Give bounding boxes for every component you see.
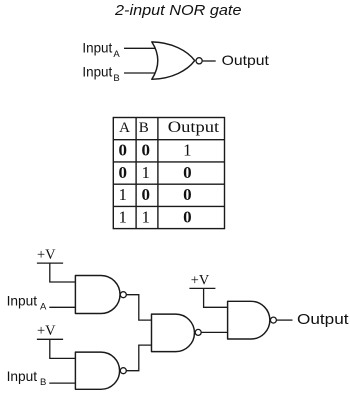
truth table row 4: 1 1 0	[118, 207, 191, 226]
truth table row 1: 0 0 1	[118, 140, 191, 159]
svg-text:Output: Output	[168, 119, 220, 136]
svg-text:B: B	[139, 120, 149, 136]
NAND gate U2 output bubble	[120, 292, 126, 298]
NAND gate U4 body	[152, 314, 195, 352]
NAND gate U5 output bubble	[270, 317, 276, 323]
label InputA (bottom circuit)	[7, 293, 47, 313]
NOR gate U1 body	[152, 42, 195, 79]
svg-text:0: 0	[183, 185, 192, 204]
svg-text:B: B	[113, 73, 119, 84]
power +V bar 2	[37, 338, 63, 340]
wire gate U4 output to gate U5 bottom input	[201, 331, 227, 333]
wire +V2 to gate2 top input	[50, 339, 76, 358]
svg-text:A: A	[119, 120, 130, 136]
power +V bar 1	[37, 262, 63, 264]
svg-text:0: 0	[141, 140, 150, 159]
truth table row 2: 0 1 0	[118, 163, 191, 182]
svg-text:+V: +V	[37, 247, 56, 263]
NAND gate U5 body	[228, 301, 270, 339]
svg-text:0: 0	[141, 185, 150, 204]
wire NOR output	[203, 60, 216, 62]
svg-text:1: 1	[141, 163, 150, 182]
svg-text:Output: Output	[297, 312, 349, 328]
wire InputB to NOR gate	[124, 72, 156, 74]
truth table header A B Output	[119, 119, 220, 136]
label InputB (top NOR gate)	[82, 63, 119, 84]
NAND gate U3 body	[75, 352, 119, 389]
svg-text:1: 1	[183, 140, 192, 159]
wire InputA to gate1	[49, 306, 75, 308]
wire InputB to gate2	[49, 382, 75, 384]
truth table row 3: 1 0 0	[118, 185, 191, 204]
svg-text:1: 1	[141, 207, 150, 226]
svg-text:Input: Input	[7, 293, 38, 309]
wire +V3 to gate U5 top input	[204, 288, 228, 307]
NAND gate U4 output bubble	[195, 329, 201, 335]
svg-text:Input: Input	[7, 368, 38, 384]
svg-text:2-input NOR gate: 2-input NOR gate	[114, 3, 242, 19]
svg-text:A: A	[40, 302, 47, 313]
svg-text:Input: Input	[82, 40, 112, 56]
power +V bar 3	[189, 287, 215, 289]
NAND gate U2 body	[75, 276, 120, 314]
svg-text:+V: +V	[37, 323, 56, 339]
svg-text:0: 0	[118, 163, 127, 182]
svg-text:Output: Output	[222, 52, 269, 68]
wire +V1 to gate1 top input	[50, 263, 76, 282]
NAND gate U3 output bubble	[120, 368, 126, 374]
svg-text:+V: +V	[191, 273, 210, 289]
wire gate U5 output to Output label	[277, 319, 293, 321]
wire gate U3 output to gate U4 bottom input	[127, 345, 152, 371]
svg-text:0: 0	[118, 140, 127, 159]
svg-text:B: B	[40, 377, 46, 388]
svg-text:1: 1	[118, 207, 127, 226]
svg-text:0: 0	[183, 207, 192, 226]
NOR gate U1 output bubble	[196, 58, 202, 64]
svg-text:A: A	[113, 49, 120, 60]
label InputB (bottom circuit)	[7, 368, 47, 388]
wire gate U2 output to gate U4 top input	[127, 295, 152, 320]
wire InputA to NOR gate	[124, 47, 156, 49]
svg-text:1: 1	[118, 185, 127, 204]
svg-text:Input: Input	[82, 63, 112, 79]
label InputA (top NOR gate)	[82, 40, 120, 61]
svg-text:0: 0	[183, 163, 192, 182]
truth table frame	[113, 118, 224, 229]
